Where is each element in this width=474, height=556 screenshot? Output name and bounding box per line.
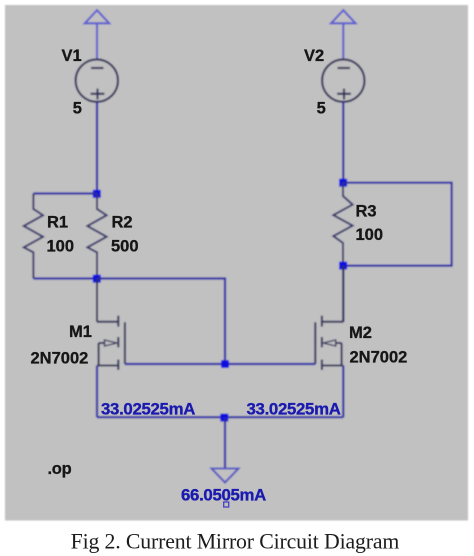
- ground symbol: [212, 469, 239, 483]
- wire M2 source down: [342, 366, 344, 418]
- wire J4 to M2 drain: [342, 266, 344, 322]
- wire rail to ground: [224, 417, 226, 468]
- svg-text:M1: M1: [69, 323, 92, 341]
- svg-text:.op: .op: [48, 460, 72, 478]
- svg-text:500: 500: [111, 238, 139, 256]
- voltage source V1: [76, 59, 118, 101]
- transistor M1: [97, 279, 125, 370]
- resistor R1: [24, 194, 43, 279]
- node junction J6 rail center: [220, 414, 228, 422]
- svg-text:Fig 2. Current Mirror Circuit: Fig 2. Current Mirror Circuit Diagram: [71, 530, 400, 554]
- wire J1 to R1 top: [33, 192, 97, 194]
- svg-text:2N7002: 2N7002: [350, 349, 408, 367]
- node junction J3: [339, 179, 347, 187]
- node junction J1: [93, 190, 101, 198]
- node junction J5 gate node: [221, 360, 229, 368]
- unconnected pin marker: [224, 502, 229, 507]
- svg-text:33.02525mA: 33.02525mA: [247, 400, 341, 419]
- node junction J2: [93, 275, 101, 283]
- transistor M2: [315, 266, 343, 370]
- svg-text:M2: M2: [349, 324, 372, 342]
- svg-text:V1: V1: [62, 47, 82, 65]
- svg-text:R2: R2: [112, 214, 133, 232]
- wire V1 to node: [96, 102, 98, 194]
- wire gate M1 to gate M2: [125, 363, 315, 365]
- wire R1 bottom to J2: [33, 277, 97, 279]
- node junction J4: [339, 262, 347, 270]
- resistor R2: [87, 194, 106, 279]
- wire V2 to J3: [342, 102, 344, 183]
- wire source rail: [97, 416, 343, 418]
- wire R3 bypass loop: [343, 183, 452, 266]
- svg-text:R1: R1: [47, 214, 68, 232]
- power arrow at V1 top: [85, 10, 109, 59]
- svg-text:33.02525mA: 33.02525mA: [101, 400, 195, 419]
- resistor R3: [333, 183, 352, 266]
- svg-text:R3: R3: [356, 203, 377, 221]
- wire J2 to gate node (diode connection): [97, 279, 225, 365]
- svg-text:66.0505mA: 66.0505mA: [181, 486, 266, 505]
- svg-text:100: 100: [47, 238, 75, 256]
- wire M1 source down: [96, 366, 98, 418]
- svg-text:5: 5: [317, 100, 326, 118]
- svg-text:100: 100: [356, 226, 384, 244]
- svg-text:2N7002: 2N7002: [31, 350, 89, 368]
- svg-text:5: 5: [73, 100, 82, 118]
- voltage source V2: [322, 59, 364, 101]
- svg-text:V2: V2: [304, 47, 324, 65]
- power arrow at V2 top: [331, 10, 355, 59]
